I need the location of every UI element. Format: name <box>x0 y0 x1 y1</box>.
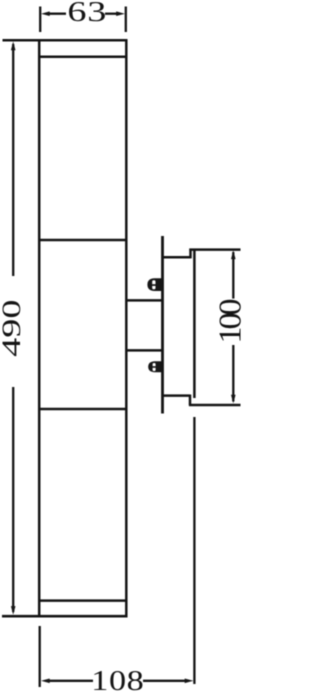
svg-text:108: 108 <box>91 665 144 697</box>
svg-text:490: 490 <box>0 300 26 357</box>
svg-text:100: 100 <box>213 299 245 344</box>
svg-text:63: 63 <box>67 0 107 28</box>
